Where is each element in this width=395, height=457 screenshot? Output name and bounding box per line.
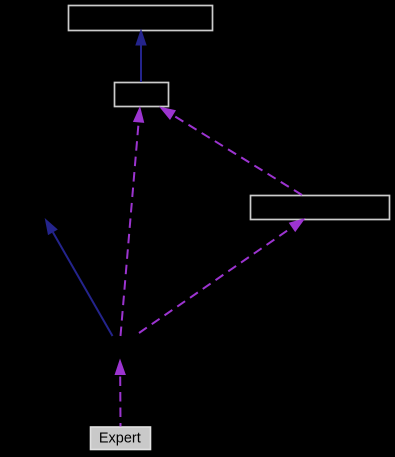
edge E6 purple dashed Expert->junction wire (119, 376, 121, 427)
edge E4 arrowhead (159, 107, 176, 121)
svg-text:Expert: Expert (99, 431, 141, 447)
edge E2 arrowhead (45, 218, 58, 235)
edge E2 blue solid junction->upperleft wire (53, 232, 113, 336)
edge E4 purple dashed rightbox->middle wire (173, 115, 302, 195)
edge E1 arrowhead (135, 29, 146, 46)
edge E3 purple dashed junction->middle wire (121, 122, 139, 336)
node box top (69, 6, 213, 31)
node box right (251, 196, 390, 220)
node box middle (115, 83, 169, 107)
node box Expert (91, 427, 151, 450)
edge E5 arrowhead (289, 218, 306, 232)
edge E6 arrowhead (115, 359, 126, 376)
edge E5 purple dashed junction->rightbox wire (139, 227, 292, 333)
edge E1 blue solid middle->top wire (140, 45, 142, 82)
edge E3 arrowhead (133, 106, 144, 123)
